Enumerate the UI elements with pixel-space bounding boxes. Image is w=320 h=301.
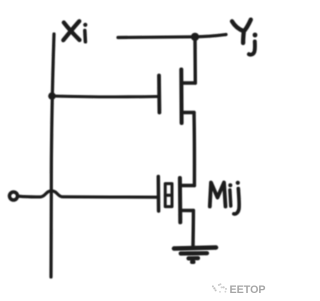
svg-text:EETOP: EETOP	[230, 284, 266, 296]
